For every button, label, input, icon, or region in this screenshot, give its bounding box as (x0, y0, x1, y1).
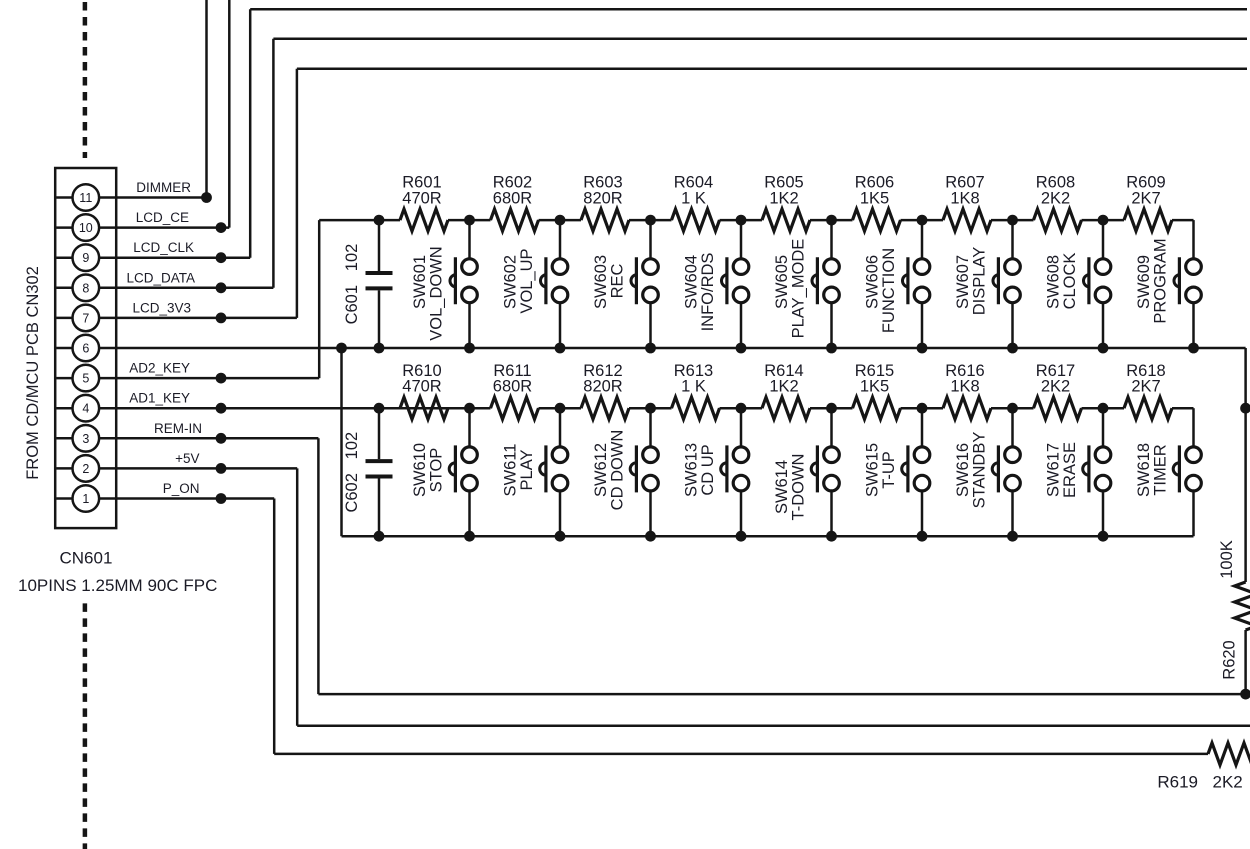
svg-text:SW606: SW606 (864, 255, 882, 309)
junction dots row2 top rail (374, 403, 385, 414)
svg-text:LCD_DATA: LCD_DATA (126, 270, 195, 285)
svg-text:PROGRAM: PROGRAM (1152, 238, 1170, 323)
svg-text:SW602: SW602 (502, 255, 520, 309)
switch SW606 FUNCTION (921, 220, 924, 266)
svg-text:PLAY_MODE: PLAY_MODE (790, 239, 808, 339)
svg-text:SW616: SW616 (954, 443, 972, 497)
switch SW608 CLOCK (1102, 220, 1105, 266)
svg-text:LCD_CLK: LCD_CLK (133, 240, 194, 255)
svg-text:LCD_CE: LCD_CE (136, 210, 189, 225)
switch SW610 STOP (468, 408, 471, 455)
svg-text:4: 4 (82, 402, 89, 416)
wire AD1_KEY (pin 4) / row2 top rail lead-in (116, 407, 400, 410)
wire LCD_CE (pin 10) (116, 226, 229, 229)
svg-text:P_ON: P_ON (163, 481, 200, 496)
svg-text:1K8: 1K8 (950, 190, 979, 208)
svg-text:FROM CD/MCU PCB CN302: FROM CD/MCU PCB CN302 (24, 266, 42, 480)
svg-text:T-UP: T-UP (880, 451, 898, 489)
junction P_ON (216, 493, 227, 504)
switch SW615 T-UP (921, 408, 924, 455)
pin 9 stub (56, 256, 116, 259)
svg-text:INFO/RDS: INFO/RDS (699, 253, 717, 332)
pin 8 stub (56, 287, 116, 290)
svg-text:1 K: 1 K (681, 378, 706, 396)
svg-text:LCD_3V3: LCD_3V3 (132, 300, 191, 315)
svg-text:470R: 470R (402, 378, 442, 396)
junction REM-IN (216, 433, 227, 444)
pin 7 stub (56, 317, 116, 320)
svg-text:10PINS 1.25MM 90C FPC: 10PINS 1.25MM 90C FPC (18, 576, 217, 595)
pin 4 stub (56, 407, 116, 410)
switch SW605 PLAY_MODE (830, 220, 833, 266)
svg-text:SW613: SW613 (683, 443, 701, 497)
junction dots row1 bottom rail (336, 343, 347, 354)
svg-text:VOL_UP: VOL_UP (518, 248, 536, 313)
svg-text:SW605: SW605 (773, 255, 791, 309)
pin 7 circle (73, 305, 100, 332)
svg-text:820R: 820R (583, 378, 623, 396)
pin 2 circle (73, 455, 100, 482)
svg-text:CD UP: CD UP (699, 444, 717, 495)
svg-text:PLAY: PLAY (518, 450, 536, 491)
svg-text:SW609: SW609 (1135, 255, 1153, 309)
wire pin 6 / row1 bottom rail (116, 347, 1245, 350)
pin 10 stub (56, 226, 116, 229)
svg-text:470R: 470R (402, 190, 442, 208)
switch SW607 DISPLAY (1011, 220, 1014, 266)
svg-text:1K2: 1K2 (769, 378, 798, 396)
svg-text:DISPLAY: DISPLAY (971, 247, 989, 315)
resistor R602 680R (491, 209, 539, 231)
svg-text:R620: R620 (1221, 640, 1239, 679)
dashed boundary line (top) (83, 2, 88, 158)
svg-text:3: 3 (82, 432, 89, 446)
svg-text:1: 1 (82, 492, 89, 506)
junction REM-IN / R620 bottom (1240, 689, 1250, 700)
resistor R614 1K2 (762, 397, 810, 419)
switch SW603 REC (649, 220, 652, 266)
resistor R607 1K8 (943, 209, 991, 231)
wire REM-IN (pin 3) (116, 437, 318, 440)
resistor R612 820R (581, 397, 629, 419)
resistor R616 1K8 (943, 397, 991, 419)
wire AD2_KEY (pin 5) to row1 top rail (116, 377, 319, 380)
svg-text:1K5: 1K5 (860, 378, 889, 396)
svg-text:SW617: SW617 (1045, 443, 1063, 497)
svg-text:SW608: SW608 (1045, 255, 1063, 309)
svg-text:SW618: SW618 (1135, 443, 1153, 497)
svg-text:SW604: SW604 (683, 255, 701, 309)
wire right vertical to R620 (1244, 348, 1247, 582)
junction dots row1 top rail (374, 215, 385, 226)
svg-text:2K2: 2K2 (1041, 378, 1070, 396)
junction AD2_KEY (216, 373, 227, 384)
switch SW614 T-DOWN (830, 408, 833, 455)
svg-text:DIMMER: DIMMER (136, 180, 191, 195)
switch SW613 CD UP (740, 408, 743, 455)
switch SW609 PROGRAM (1192, 220, 1195, 266)
wire DIMMER (pin 11) (116, 196, 206, 199)
wire row2 bottom rail (342, 535, 1194, 538)
svg-text:7: 7 (82, 311, 89, 325)
connector CN601 body (55, 168, 116, 528)
svg-text:CN601: CN601 (60, 549, 113, 568)
junction AD1_KEY (216, 403, 227, 414)
resistor R605 1K2 (762, 209, 810, 231)
svg-text:CLOCK: CLOCK (1061, 253, 1079, 310)
pin 2 stub (56, 467, 116, 470)
resistor R603 820R (581, 209, 629, 231)
svg-text:SW614: SW614 (773, 460, 791, 514)
svg-text:SW612: SW612 (592, 443, 610, 497)
pin 11 circle (73, 184, 100, 211)
pin 6 circle (73, 335, 100, 362)
pin 4 circle (73, 395, 100, 422)
svg-text:SW611: SW611 (502, 444, 520, 497)
switch SW618 TIMER (1192, 408, 1195, 455)
resistor R613 1 K (672, 397, 720, 419)
resistor R608 2K2 (1034, 209, 1082, 231)
svg-text:AD2_KEY: AD2_KEY (129, 361, 190, 376)
pin 8 circle (73, 275, 100, 302)
pin 1 circle (73, 485, 100, 512)
svg-text:2K7: 2K7 (1131, 378, 1160, 396)
svg-text:SW610: SW610 (411, 443, 429, 497)
switch SW617 ERASE (1102, 408, 1105, 455)
svg-text:REM-IN: REM-IN (154, 421, 202, 436)
resistor R611 680R (491, 397, 539, 419)
svg-text:2K2: 2K2 (1213, 773, 1243, 792)
svg-text:8: 8 (82, 281, 89, 295)
capacitor C601 102 (378, 220, 381, 271)
wire row1 top rail (319, 219, 400, 222)
svg-text:5: 5 (82, 372, 89, 386)
svg-text:REC: REC (609, 264, 627, 299)
svg-text:1 K: 1 K (681, 190, 706, 208)
svg-text:SW615: SW615 (864, 443, 882, 497)
resistor R606 1K5 (853, 209, 901, 231)
wire LCD_CLK (pin 9) (116, 256, 250, 259)
resistor R609 2K7 (1124, 209, 1172, 231)
svg-text:C601 102: C601 102 (343, 244, 361, 325)
wire left loop (C601/C602 bottom tie) (340, 348, 343, 536)
switch SW611 PLAY (559, 408, 562, 455)
pin 11 stub (56, 196, 116, 199)
pin 5 circle (73, 365, 100, 392)
resistor R610 470R (400, 397, 448, 419)
switch SW604 INFO/RDS (740, 220, 743, 266)
svg-text:STANDBY: STANDBY (971, 432, 989, 509)
resistor R619 2K2 (1208, 743, 1250, 765)
svg-text:1K5: 1K5 (860, 190, 889, 208)
pin 9 circle (73, 244, 100, 271)
dashed boundary line (bottom) (83, 603, 88, 849)
junction +5V (216, 463, 227, 474)
resistor R604 1 K (672, 209, 720, 231)
pin 5 stub (56, 377, 116, 380)
svg-text:820R: 820R (583, 190, 623, 208)
svg-text:SW603: SW603 (592, 255, 610, 309)
pin 10 circle (73, 214, 100, 241)
svg-text:SW607: SW607 (954, 255, 972, 309)
svg-text:1K8: 1K8 (950, 378, 979, 396)
svg-text:11: 11 (79, 191, 92, 205)
resistor R618 2K7 (1124, 397, 1172, 419)
switch SW602 VOL_UP (559, 220, 562, 266)
resistor R601 470R (400, 209, 448, 231)
wire LCD_3V3 (pin 7) (116, 317, 297, 320)
switch SW601 VOL_DOWN (468, 220, 471, 266)
svg-text:T-DOWN: T-DOWN (790, 454, 808, 521)
pin 3 stub (56, 437, 116, 440)
svg-text:2K2: 2K2 (1041, 190, 1070, 208)
resistor R617 2K2 (1034, 397, 1082, 419)
svg-text:VOL_DOWN: VOL_DOWN (428, 246, 446, 340)
svg-text:ERASE: ERASE (1061, 442, 1079, 498)
junction dots row2 bottom rail (374, 531, 385, 542)
junction LCD_DATA (216, 282, 227, 293)
svg-text:TIMER: TIMER (1152, 444, 1170, 495)
svg-text:680R: 680R (493, 190, 533, 208)
resistor R620 100K (1235, 582, 1250, 630)
svg-text:+5V: +5V (175, 451, 199, 466)
resistor R615 1K5 (853, 397, 901, 419)
svg-text:100K: 100K (1218, 540, 1236, 579)
svg-text:FUNCTION: FUNCTION (880, 248, 898, 333)
switch SW616 STANDBY (1011, 408, 1014, 455)
junction LCD_CE (216, 222, 227, 233)
svg-text:STOP: STOP (428, 448, 446, 493)
junction LCD_CLK (216, 252, 227, 263)
svg-text:10: 10 (79, 221, 93, 235)
capacitor C602 102 (378, 408, 381, 459)
junction LCD_3V3 (216, 313, 227, 324)
svg-text:680R: 680R (493, 378, 533, 396)
pin 6 stub (56, 347, 116, 350)
svg-text:1K2: 1K2 (769, 190, 798, 208)
svg-text:SW601: SW601 (411, 255, 429, 309)
wire +5V (pin 2) (116, 467, 297, 470)
wire LCD_DATA (pin 8) (116, 287, 273, 290)
svg-text:6: 6 (82, 342, 89, 356)
wire P_ON (pin 1) (116, 497, 274, 500)
svg-text:CD DOWN: CD DOWN (609, 430, 627, 511)
switch SW612 CD DOWN (649, 408, 652, 455)
svg-text:R619: R619 (1157, 773, 1198, 792)
wire row2 top rail (400, 407, 491, 410)
junction DIMMER (201, 192, 212, 203)
svg-text:AD1_KEY: AD1_KEY (129, 391, 190, 406)
junction on right vertical (1240, 403, 1250, 414)
pin 3 circle (73, 425, 100, 452)
svg-text:2K7: 2K7 (1131, 190, 1160, 208)
svg-text:C602 102: C602 102 (343, 432, 361, 513)
svg-text:9: 9 (82, 251, 89, 265)
svg-text:2: 2 (82, 462, 89, 476)
pin 1 stub (56, 497, 116, 500)
